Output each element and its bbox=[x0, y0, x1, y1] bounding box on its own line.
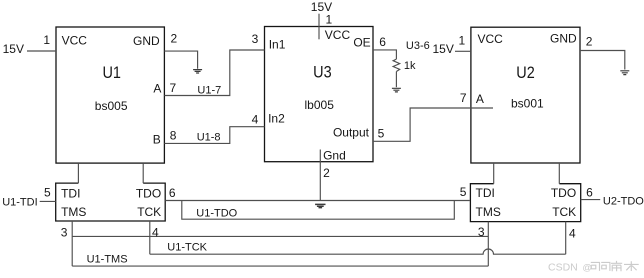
chip U2 JTAG box bbox=[470, 184, 580, 222]
svg-text:bs005: bs005 bbox=[95, 99, 128, 113]
wire U3 pin 5 Output to U2 pin 7 A bbox=[373, 108, 493, 141]
wire net TCK bus with hop over TMS wire bbox=[150, 249, 566, 254]
wire U1 pin 2 GND to ground bbox=[164, 51, 197, 69]
chip U1 main box bbox=[56, 27, 164, 163]
svg-text:U1-TDO: U1-TDO bbox=[196, 208, 237, 220]
wire net U1-TMS U2 pin 3 vertical bbox=[487, 222, 489, 267]
svg-text:2: 2 bbox=[171, 32, 178, 46]
wire net U1-TCK U1 pin 4 vertical bbox=[149, 221, 151, 254]
svg-text:7: 7 bbox=[460, 91, 467, 105]
wire net U1-TMS U1 pin 3 vertical bbox=[71, 221, 73, 266]
svg-text:GND: GND bbox=[550, 32, 577, 46]
svg-text:B: B bbox=[153, 132, 161, 146]
chip U1 JTAG box bbox=[56, 183, 166, 221]
svg-text:U2-TDO: U2-TDO bbox=[603, 195, 644, 207]
ground symbol at U1 pin 2 bbox=[193, 70, 202, 73]
svg-text:7: 7 bbox=[170, 81, 177, 95]
wire U2 pin 6 TDO to U2-TDO label bbox=[581, 199, 601, 201]
watermark hanzi nan bbox=[611, 261, 622, 271]
svg-text:lb005: lb005 bbox=[305, 98, 335, 112]
watermark hanzi ke2 bbox=[601, 262, 610, 271]
svg-text:In1: In1 bbox=[269, 38, 286, 52]
resistor R 1k bbox=[393, 59, 400, 71]
svg-text:3: 3 bbox=[61, 226, 68, 240]
svg-text:U1-TCK: U1-TCK bbox=[167, 241, 207, 253]
ground symbol at U2 pin 2 bbox=[620, 71, 629, 75]
svg-text:2: 2 bbox=[586, 35, 593, 49]
svg-text:4: 4 bbox=[152, 225, 159, 239]
svg-text:TMS: TMS bbox=[476, 205, 501, 219]
wire net U1-TMS label box bottom bbox=[72, 265, 488, 267]
svg-text:GND: GND bbox=[133, 34, 160, 48]
svg-text:TMS: TMS bbox=[61, 205, 86, 219]
wire U2 body to JTAG right connector bbox=[558, 163, 560, 184]
svg-text:4: 4 bbox=[252, 112, 259, 126]
svg-text:TDO: TDO bbox=[136, 186, 161, 200]
wire U1 pin 8 B to U3 pin 4 In2 bbox=[164, 127, 264, 144]
svg-text:@: @ bbox=[582, 263, 592, 274]
watermark hanzi ke1 bbox=[591, 262, 600, 271]
svg-text:TDI: TDI bbox=[476, 186, 495, 200]
wire U1 pin 7 A to U3 pin 3 In1 bbox=[164, 50, 264, 96]
ground arrow at U3 Gnd net bbox=[315, 204, 325, 207]
svg-text:2: 2 bbox=[323, 166, 330, 180]
svg-text:bs001: bs001 bbox=[511, 96, 544, 110]
svg-text:3: 3 bbox=[252, 32, 259, 46]
svg-text:A: A bbox=[153, 82, 161, 96]
svg-text:Gnd: Gnd bbox=[323, 148, 346, 162]
svg-text:TCK: TCK bbox=[137, 205, 161, 219]
svg-text:Output: Output bbox=[333, 126, 370, 140]
svg-text:VCC: VCC bbox=[478, 32, 504, 46]
svg-text:TDO: TDO bbox=[551, 186, 576, 200]
wire U2 pin 2 GND to ground bbox=[580, 51, 625, 70]
wire U3 pin 6 OE to resistor bbox=[373, 50, 396, 59]
svg-text:5: 5 bbox=[378, 127, 385, 141]
wire U1 body to JTAG left connector bbox=[77, 163, 79, 183]
svg-text:3: 3 bbox=[478, 225, 485, 239]
svg-text:VCC: VCC bbox=[62, 34, 88, 48]
svg-text:8: 8 bbox=[170, 129, 177, 143]
wire net TMS bus U1 pin 3 to U2 pin 3 bbox=[72, 235, 488, 237]
svg-text:U1-7: U1-7 bbox=[197, 84, 221, 96]
svg-text:15V: 15V bbox=[433, 42, 454, 56]
svg-text:U1-TDI: U1-TDI bbox=[2, 197, 37, 209]
svg-text:6: 6 bbox=[379, 35, 386, 49]
svg-text:1: 1 bbox=[459, 33, 466, 47]
svg-text:1: 1 bbox=[326, 12, 333, 26]
wire U3 pin 2 Gnd down to TDO wire bbox=[319, 150, 321, 201]
svg-text:6: 6 bbox=[586, 186, 593, 200]
svg-text:In2: In2 bbox=[268, 112, 285, 126]
wire U2 body to JTAG left connector bbox=[493, 163, 495, 184]
svg-text:OE: OE bbox=[353, 36, 370, 50]
svg-text:U1-8: U1-8 bbox=[197, 132, 221, 144]
wire 15V to U3 pin 1 VCC bbox=[318, 14, 320, 40]
wire 15V to U2 pin 1 VCC bbox=[455, 50, 471, 52]
svg-text:TCK: TCK bbox=[552, 205, 576, 219]
svg-text:TDI: TDI bbox=[61, 186, 80, 200]
svg-text:1: 1 bbox=[43, 33, 50, 47]
svg-text:U3-6: U3-6 bbox=[406, 40, 430, 52]
watermark hanzi mu bbox=[624, 261, 639, 271]
ground symbol below resistor bbox=[392, 88, 401, 92]
svg-text:5: 5 bbox=[44, 185, 51, 199]
svg-text:U2: U2 bbox=[516, 64, 534, 82]
svg-text:6: 6 bbox=[169, 186, 176, 200]
svg-text:5: 5 bbox=[460, 185, 467, 199]
chip U2 main box bbox=[471, 27, 580, 163]
svg-text:1k: 1k bbox=[404, 60, 416, 72]
svg-text:A: A bbox=[476, 92, 484, 106]
svg-text:VCC: VCC bbox=[325, 28, 351, 42]
node U1-TDO label box bbox=[182, 201, 455, 220]
svg-text:U1-TMS: U1-TMS bbox=[87, 253, 128, 265]
svg-text:CSDN: CSDN bbox=[548, 261, 578, 273]
wire U1 body to JTAG right connector bbox=[142, 163, 144, 183]
chip U3 box bbox=[265, 27, 374, 162]
wire 15V to U1 pin 1 VCC bbox=[27, 50, 56, 52]
wire U1-TDI input to U1 pin 5 TDI bbox=[40, 200, 56, 202]
svg-text:U1: U1 bbox=[102, 64, 120, 82]
svg-text:4: 4 bbox=[569, 227, 576, 241]
svg-text:U3: U3 bbox=[313, 63, 332, 81]
svg-text:15V: 15V bbox=[3, 42, 24, 56]
wire net U1-TCK U2 pin 4 vertical bbox=[565, 222, 567, 255]
wire net U1-TDO from U1 pin 6 TDO to U2 pin 5 TDI bbox=[165, 200, 470, 202]
wire resistor to ground bbox=[395, 72, 397, 88]
